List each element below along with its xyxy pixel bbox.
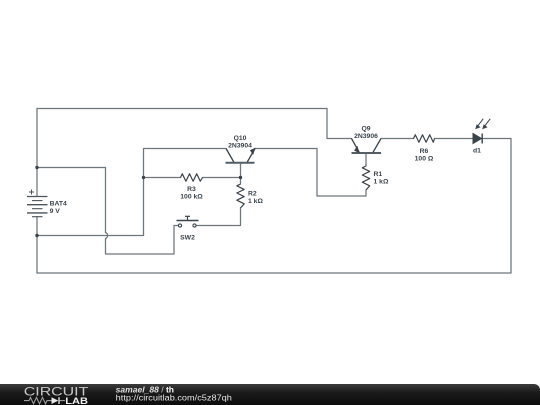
photodiode d1 xyxy=(473,119,490,144)
wire left riser to Q10 collector xyxy=(144,149,227,236)
svg-text:100 kΩ: 100 kΩ xyxy=(180,194,203,201)
wire bottom rail xyxy=(37,272,511,274)
transistor Q10 xyxy=(226,148,256,163)
wire battery node to left vertical riser xyxy=(37,235,144,237)
svg-text:9 V: 9 V xyxy=(50,208,61,215)
resistor R2 xyxy=(237,184,244,208)
svg-text:Q9: Q9 xyxy=(361,126,370,133)
svg-text:R3: R3 xyxy=(187,186,196,193)
node battery top tap xyxy=(35,166,38,169)
wire top rail xyxy=(37,108,327,110)
svg-text:100 Ω: 100 Ω xyxy=(415,156,434,163)
wire Q9 collector to R6 xyxy=(381,138,414,140)
resistor R6 xyxy=(414,135,435,142)
wire battery positive lead xyxy=(36,109,38,197)
svg-text:2N3904: 2N3904 xyxy=(228,142,252,149)
svg-text:R1: R1 xyxy=(374,171,383,178)
svg-text:d1: d1 xyxy=(473,148,481,155)
svg-text:R2: R2 xyxy=(248,191,257,198)
wire d1 to right rail xyxy=(483,139,512,274)
resistor R1 xyxy=(362,166,369,190)
wire Q10 emitter to R1 bottom xyxy=(255,149,366,197)
node battery bottom junction xyxy=(35,234,38,237)
wire Q9 base lead xyxy=(365,154,367,167)
svg-text:Q10: Q10 xyxy=(234,135,247,142)
transistor Q9 xyxy=(352,139,382,154)
wire battery top tap to x105 xyxy=(37,167,106,169)
wire R3 right lead xyxy=(203,177,241,179)
svg-text:R6: R6 xyxy=(420,148,429,155)
wire Q10 base to R2 xyxy=(240,178,242,185)
svg-text:1 kΩ: 1 kΩ xyxy=(374,179,389,186)
wire battery negative lead xyxy=(36,217,38,273)
wire Q10 base lead xyxy=(240,164,242,178)
wire x105 vertical with hop over y235.5 xyxy=(106,168,175,255)
wire R2 bottom to SW2 xyxy=(197,208,241,226)
switch SW2 xyxy=(177,216,199,227)
footer bar xyxy=(0,384,540,405)
wire R1 bottom lead xyxy=(365,190,367,196)
logo wire with resistor and diode xyxy=(24,397,65,404)
wire R3 left lead xyxy=(144,177,181,179)
wire SW2 left stub xyxy=(174,225,178,227)
svg-text:2N3906: 2N3906 xyxy=(354,133,378,140)
wire R6 to d1 xyxy=(435,138,474,140)
resistor R3 xyxy=(181,174,203,181)
wire top rail step down to Q9 emitter xyxy=(327,109,352,139)
node left riser R3 tap xyxy=(142,176,145,179)
svg-text:1 kΩ: 1 kΩ xyxy=(248,198,263,205)
battery BAT4 xyxy=(27,190,48,217)
svg-text:SW2: SW2 xyxy=(180,235,195,242)
node Q10 base junction xyxy=(239,176,242,179)
svg-text:BAT4: BAT4 xyxy=(50,201,67,208)
